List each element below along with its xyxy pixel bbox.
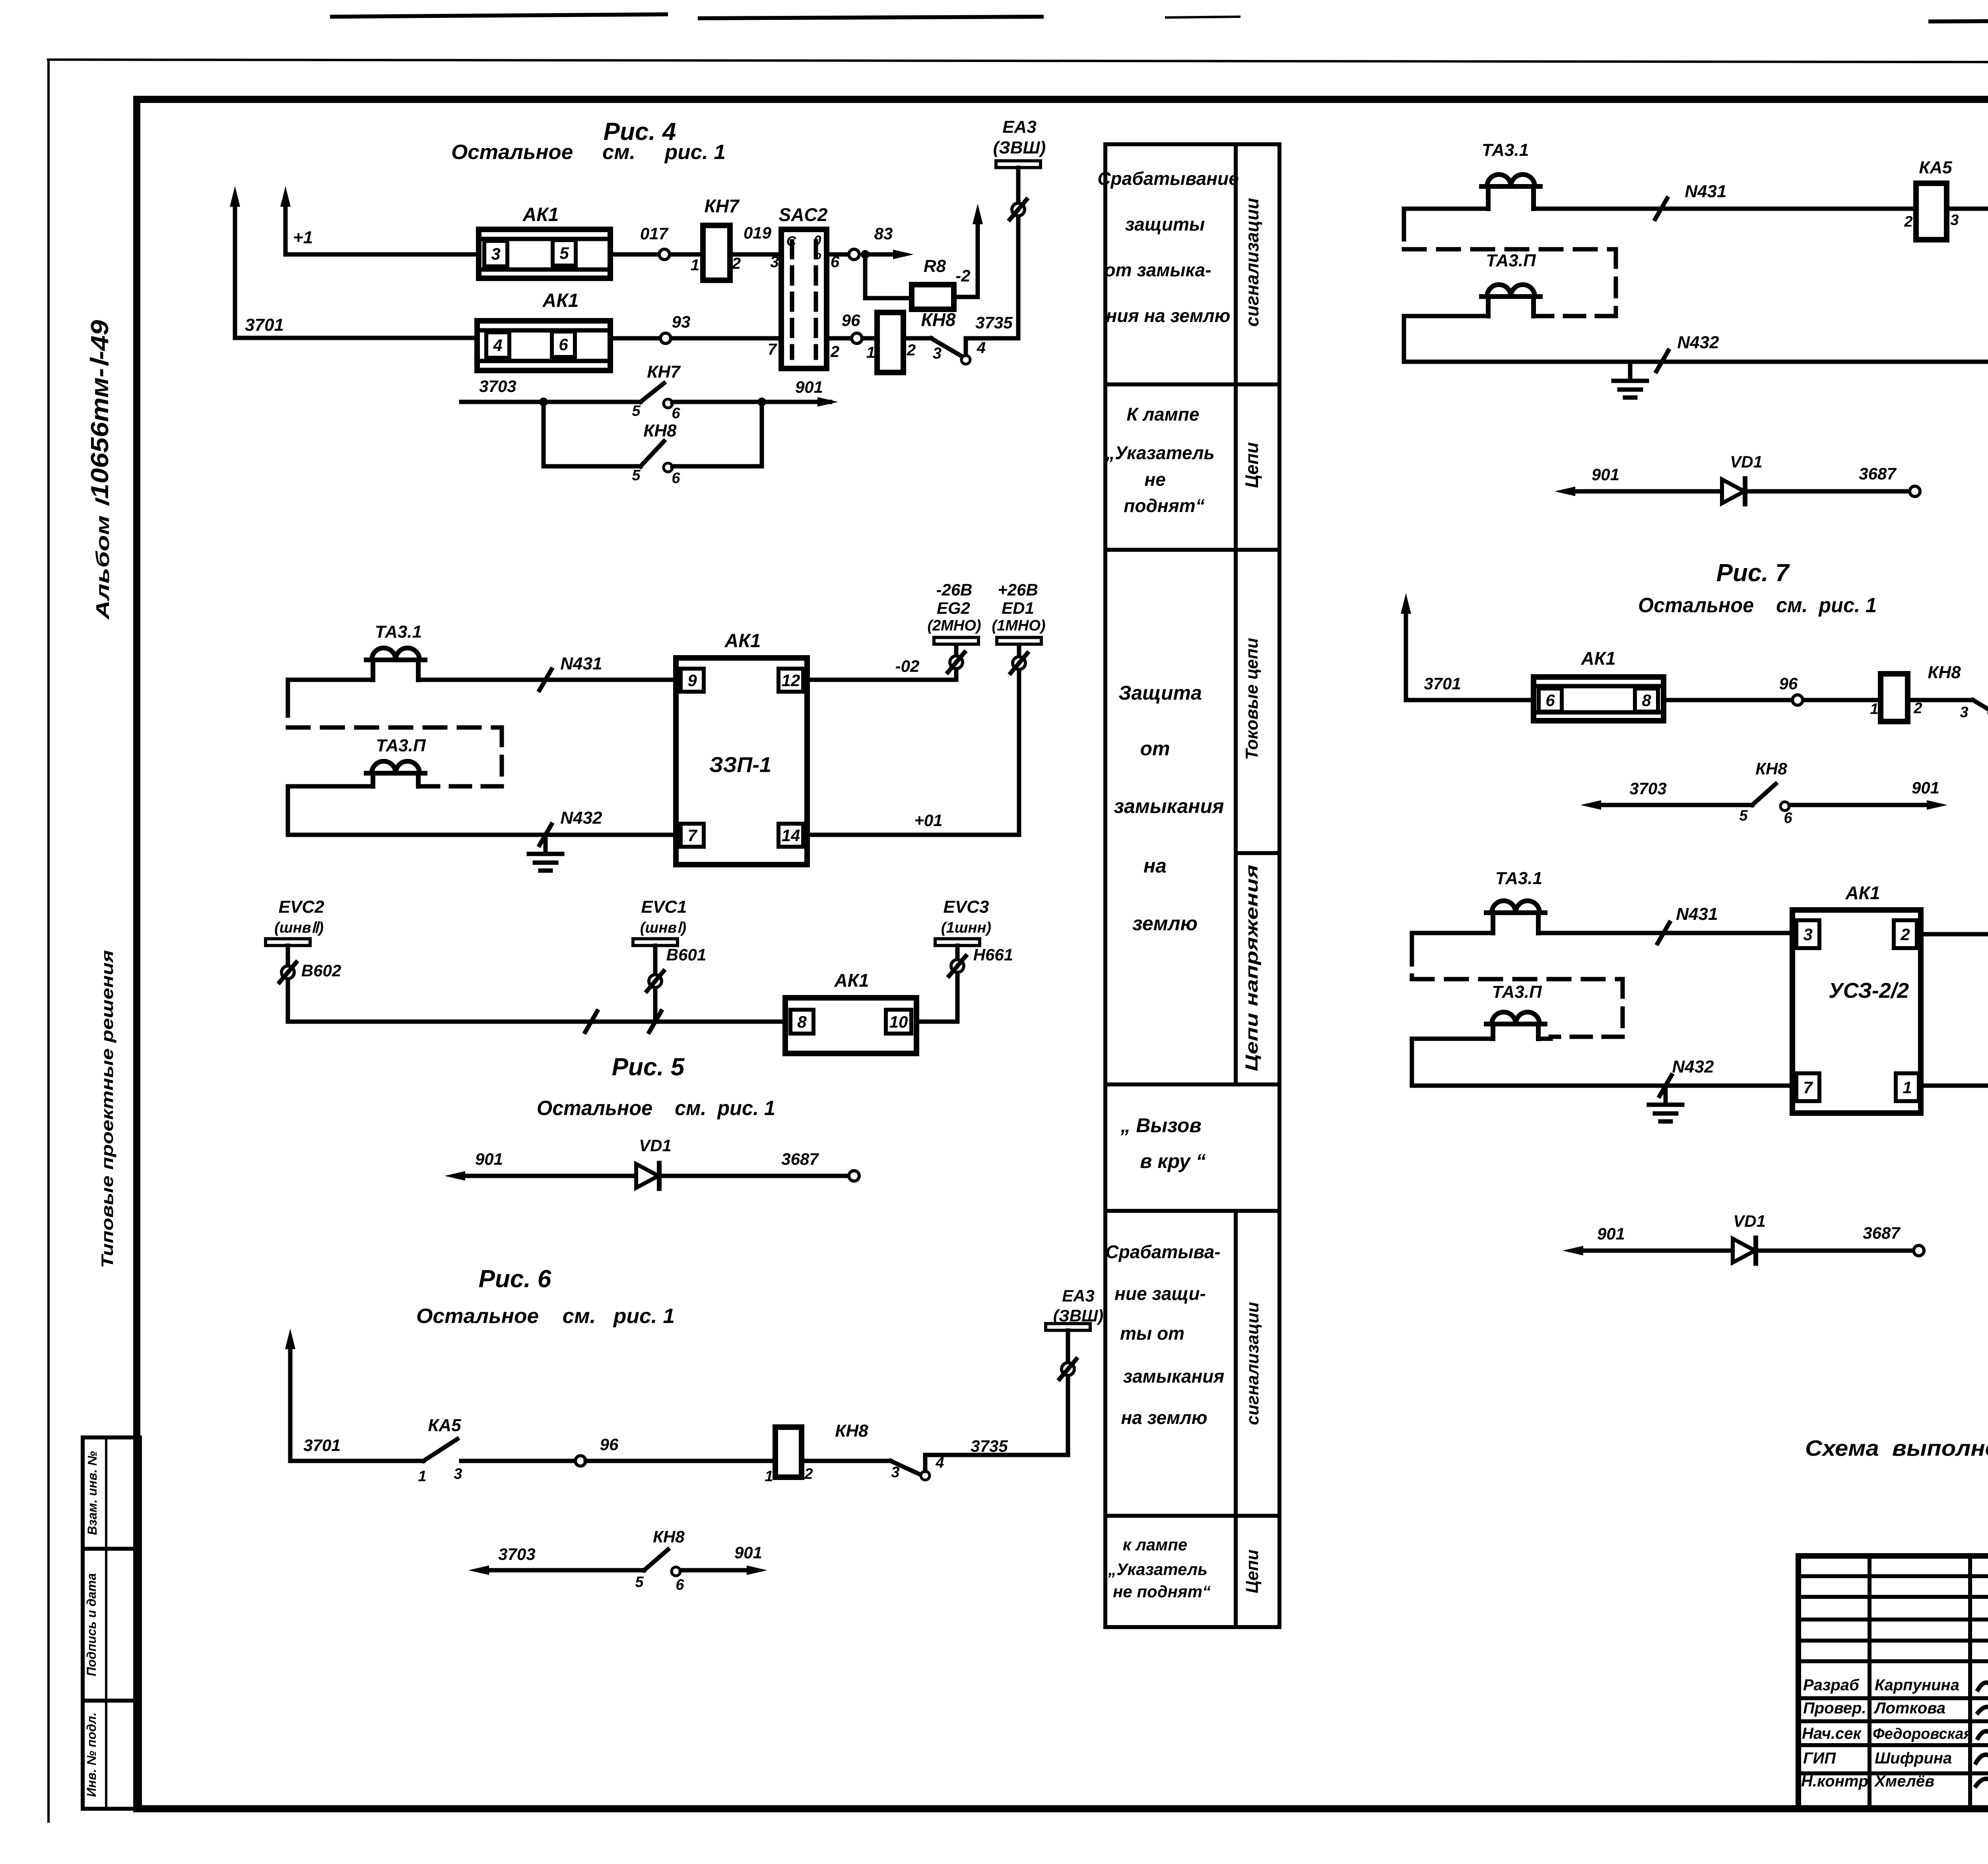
svg-text:R8: R8 (924, 256, 946, 276)
wire feeder 3701 with up arrow (fig4) (233, 202, 237, 338)
svg-text:от замыка-: от замыка- (1105, 260, 1211, 280)
disconnect circle EG2 (fig5) (950, 656, 963, 669)
svg-text:2: 2 (1900, 925, 1910, 944)
wire EA3 vertical (fig4) (1016, 168, 1021, 338)
svg-text:Остальное см. рис. 1: Остальное см. рис. 1 (451, 141, 726, 164)
svg-text:в кру “: в кру “ (1140, 1150, 1206, 1172)
ground symbol (fig7 lower) (1664, 1086, 1668, 1104)
svg-text:Срабатывание: Срабатывание (1097, 168, 1239, 189)
svg-text:6: 6 (1545, 691, 1555, 710)
disconnect circle EA3 (fig6) (1062, 1363, 1074, 1375)
svg-text:Токовые цепи: Токовые цепи (1242, 638, 1262, 760)
svg-text:6: 6 (559, 335, 568, 354)
svg-text:10: 10 (889, 1012, 908, 1031)
bus bar EVC3 (935, 939, 980, 946)
disconnect circle В601 (649, 975, 662, 987)
current transformer TA3.1 (fig7 top) (1481, 184, 1540, 189)
relay block AK1 (pins 8-10) fig5 (785, 998, 916, 1053)
wire N432 (fig5) (288, 833, 676, 837)
svg-text:N432: N432 (1677, 333, 1719, 352)
wire feeder 3701 with up arrow (fig7) (1404, 609, 1408, 700)
svg-text:не поднят“: не поднят“ (1113, 1582, 1211, 1601)
svg-text:10656тм-Ⅰ-49: 10656тм-Ⅰ-49 (86, 320, 114, 499)
svg-text:2: 2 (830, 343, 839, 361)
svg-text:2: 2 (732, 255, 741, 272)
wire below TA3.П (fig7 lower) (1412, 1037, 1493, 1041)
arrow 901 (fig4) (815, 400, 823, 404)
relay block AK1 upper (pins 3-5) fig4 (479, 229, 610, 278)
middle table cell К лампе Указатель не поднят (1105, 404, 1215, 516)
title row names (1873, 1676, 1972, 1790)
current transformer TA3.1 (fig5) (366, 658, 425, 662)
svg-text:ние защи-: ние защи- (1114, 1283, 1206, 1304)
svg-text:901: 901 (1597, 1224, 1625, 1243)
svg-text:+26В: +26В (998, 580, 1038, 599)
svg-text:7: 7 (768, 341, 777, 358)
svg-text:ния на землю: ния на землю (1106, 305, 1231, 326)
svg-text:6: 6 (672, 470, 680, 487)
svg-text:Цепи: Цепи (1242, 1550, 1262, 1593)
svg-text:С: С (786, 234, 796, 249)
svg-text:3: 3 (491, 244, 500, 263)
svg-text:от: от (1140, 737, 1170, 760)
svg-text:землю: землю (1132, 912, 1198, 935)
svg-text:Остальное см. рис. 1: Остальное см. рис. 1 (1638, 594, 1877, 617)
disconnect circle ED1 (fig5) (1013, 657, 1025, 669)
svg-text:1: 1 (765, 1468, 773, 1485)
wire +01 (fig5) (807, 833, 1019, 837)
middle table frame (1105, 144, 1279, 1627)
node 96 circle (fig4) (852, 333, 862, 343)
svg-text:АК1: АК1 (542, 290, 579, 311)
margin stamp table (83, 1437, 140, 1809)
svg-text:В601: В601 (666, 945, 706, 964)
svg-text:2: 2 (804, 1466, 813, 1482)
wire N432 (fig7 top) (1404, 360, 1988, 364)
svg-text:VD1: VD1 (1730, 452, 1763, 471)
svg-text:(2МНО): (2МНО) (927, 617, 981, 634)
wire 96 (fig4) (827, 336, 877, 341)
wire N431 (fig7 lower) (1412, 931, 1493, 935)
svg-text:4: 4 (935, 1455, 944, 1471)
svg-text:3703: 3703 (479, 377, 516, 396)
contact KH8 blade 3-4 (fig6) (802, 1459, 891, 1463)
disconnect circle on EA3 wire (fig4) (1012, 203, 1025, 216)
svg-text:В602: В602 (301, 961, 341, 980)
svg-text:3735: 3735 (975, 313, 1013, 332)
svg-text:(шнвⅡ): (шнвⅡ) (274, 919, 324, 936)
node 96 circle (fig6) (575, 1456, 586, 1466)
cable slash N431 (fig7 top) (1655, 198, 1667, 219)
wire to KH8 (fig6) (586, 1459, 775, 1463)
wire left vertical (fig7 top) (1402, 209, 1406, 223)
relay contact KH7 box (pins 1-2) fig4 (703, 225, 730, 280)
wire left vertical (fig5) (286, 680, 290, 698)
svg-text:3703: 3703 (498, 1545, 535, 1563)
svg-text:901: 901 (795, 378, 823, 396)
wire feeder +1 with up arrow (fig4) (283, 202, 288, 254)
svg-text:КН8: КН8 (835, 1421, 868, 1441)
svg-text:АК1: АК1 (834, 970, 869, 991)
contact KH8 blade 3-4 (fig4) (903, 336, 931, 341)
svg-text:Лоткова: Лоткова (1873, 1699, 1945, 1717)
svg-text:ТА3.1: ТА3.1 (1482, 140, 1529, 160)
node 017 circle (659, 249, 670, 260)
svg-text:АК1: АК1 (1845, 883, 1880, 903)
wire left vertical (fig7 lower) (1410, 933, 1414, 948)
svg-text:замыкания: замыкания (1123, 1366, 1225, 1387)
svg-text:901: 901 (734, 1543, 762, 1562)
bus bar EA3 (fig6) (1046, 1324, 1090, 1331)
svg-text:8: 8 (1642, 691, 1651, 710)
middle table cell к лампе Указатель не поднят 2 (1108, 1535, 1211, 1601)
svg-text:96: 96 (842, 311, 860, 330)
outer border left line (47, 60, 50, 1823)
svg-text:3: 3 (1803, 925, 1812, 944)
svg-text:Цепи напряжения: Цепи напряжения (1242, 865, 1262, 1071)
wire branch to R8 (fig4) (865, 254, 912, 298)
relay coil KH8 (fig6) (775, 1427, 802, 1477)
svg-text:ЕG2: ЕG2 (937, 599, 970, 617)
svg-text:3735: 3735 (971, 1437, 1008, 1455)
outer border top line (47, 60, 1988, 63)
terminal circle 3687 (fig7 lower) (1914, 1245, 1924, 1256)
svg-text:3: 3 (454, 1466, 462, 1482)
svg-text:5: 5 (635, 1574, 644, 1591)
svg-text:КН8: КН8 (921, 309, 955, 330)
svg-text:1: 1 (418, 1468, 426, 1485)
diode line 901-VD1-3687 (fig7 top) (1570, 489, 1722, 494)
svg-text:Рис. 6: Рис. 6 (479, 1265, 551, 1293)
svg-text:Инв. № подл.: Инв. № подл. (84, 1713, 99, 1797)
svg-text:EVC1: EVC1 (641, 897, 687, 917)
svg-text:3701: 3701 (245, 315, 284, 335)
wire EVC3 down (955, 946, 960, 1022)
svg-text:Карпунина: Карпунина (1875, 1676, 1959, 1694)
svg-text:3: 3 (1960, 704, 1968, 721)
svg-text:КН7: КН7 (704, 196, 740, 216)
svg-text:5: 5 (559, 244, 569, 262)
svg-text:ЕD1: ЕD1 (1002, 599, 1034, 617)
diode line 901-VD1-3687 (fig7 lower) (1578, 1249, 1732, 1253)
cable slash on N432 (fig5) (540, 824, 551, 845)
svg-text:3701: 3701 (303, 1436, 340, 1455)
wire below TA3.П (fig7 top) (1404, 314, 1488, 318)
svg-text:не: не (1144, 469, 1165, 490)
wire R8 to up arrow (fig4) (954, 295, 978, 299)
svg-text:96: 96 (600, 1435, 619, 1454)
svg-text:EVC3: EVC3 (944, 897, 989, 917)
contact KH7 blade 5-6 (fig4 bottom) (641, 383, 664, 402)
svg-text:сигнализации: сигнализации (1243, 1302, 1262, 1425)
svg-text:Остальное см. рис. 1: Остальное см. рис. 1 (416, 1305, 675, 1328)
svg-text:АК1: АК1 (522, 204, 559, 225)
svg-text:к лампе: к лампе (1123, 1535, 1188, 1554)
diode line 901-VD1-3687 (fig5) (460, 1174, 636, 1178)
svg-text:ты от: ты от (1120, 1323, 1184, 1344)
protection block AK1 УСЗ-2/2 (fig7) (1792, 910, 1921, 1113)
svg-text:93: 93 (672, 312, 691, 331)
diode VD1 (fig5) (636, 1164, 658, 1188)
svg-text:ТА3.1: ТА3.1 (375, 622, 422, 642)
svg-text:3687: 3687 (781, 1150, 819, 1168)
svg-text:7: 7 (687, 826, 697, 845)
resistor R8 (912, 285, 954, 309)
svg-text:КН8: КН8 (1928, 663, 1961, 682)
svg-text:(ЗВШ): (ЗВШ) (993, 138, 1046, 157)
svg-text:1: 1 (866, 344, 875, 361)
voltage bus wire (fig5 bottom) (288, 1020, 785, 1024)
cable slash on N431 (fig5) (540, 669, 551, 690)
svg-text:КН8: КН8 (653, 1527, 685, 1546)
svg-text:4: 4 (977, 339, 986, 357)
svg-text:019: 019 (744, 223, 772, 242)
scan streak top (330, 14, 668, 17)
svg-text:3701: 3701 (1424, 674, 1461, 693)
relay coil KH8 (fig7) (1881, 674, 1908, 722)
switch block SAC2 (fig4) (781, 229, 827, 369)
bypass wire with KH8 contact 5-6 (fig4) (544, 402, 641, 466)
svg-text:EVC2: EVC2 (279, 897, 324, 917)
wire EA3 vertical (fig6) (1066, 1331, 1070, 1455)
ground symbol (fig7 top) (1628, 362, 1633, 380)
cable slash N432 (fig7 lower) (1660, 1075, 1672, 1096)
signature Шифрина (1976, 1750, 1988, 1763)
svg-text:(шнвⅠ): (шнвⅠ) (640, 919, 686, 936)
svg-text:Защита: Защита (1118, 682, 1202, 704)
svg-text:901: 901 (475, 1150, 503, 1168)
disconnect circle Н661 (951, 960, 964, 972)
svg-text:Рис. 7: Рис. 7 (1716, 559, 1790, 587)
wire pin10 to EVC3 (916, 1020, 957, 1024)
svg-text:Н661: Н661 (973, 945, 1013, 964)
svg-text:Рис. 5: Рис. 5 (612, 1053, 685, 1081)
svg-text:„Указатель: „Указатель (1108, 1560, 1208, 1579)
svg-text:АК1: АК1 (1580, 648, 1615, 669)
svg-text:сигнализации: сигнализации (1242, 198, 1262, 327)
svg-text:ТА3.П: ТА3.П (376, 736, 426, 755)
svg-text:Схема выполнена на листах: Схема выполнена на листах 45, 46, 47, 48… (1805, 1435, 1988, 1461)
svg-text:ЗЗП-1: ЗЗП-1 (709, 753, 771, 777)
wire N432 (fig7 lower) (1412, 1084, 1792, 1088)
middle table cell Защита от замыкания на землю (1114, 682, 1224, 935)
relay coil KA5 (pins 2-3) fig7 (1916, 183, 1947, 240)
relay coil KH8 (pins 1-2) fig4 (877, 312, 903, 372)
wire EVC2 down (286, 946, 290, 1022)
wire below TA3.П (fig5) (288, 784, 373, 789)
wire -02 (fig7) (1921, 932, 1988, 937)
svg-text:96: 96 (1779, 674, 1798, 693)
wire 3703-901 row (fig4) (461, 400, 641, 404)
svg-text:о: о (814, 249, 821, 262)
svg-text:7: 7 (1803, 1078, 1813, 1097)
svg-text:0: 0 (814, 233, 821, 248)
svg-text:КА5: КА5 (1919, 158, 1952, 177)
svg-text:1: 1 (1903, 1078, 1912, 1097)
relay block AK1 (pins 6-8) fig7 (1534, 677, 1664, 721)
terminal circle 3687 (fig5) (849, 1171, 859, 1181)
wire -02 (fig5) (807, 678, 956, 682)
svg-text:1: 1 (1870, 701, 1878, 718)
svg-text:Типовые проектные решени: Типовые проектные решения (98, 950, 116, 1268)
terminal circle 3687 (fig7 top) (1910, 486, 1920, 497)
svg-text:8: 8 (797, 1012, 807, 1031)
svg-text:ТА3.П: ТА3.П (1492, 982, 1542, 1002)
svg-text:2: 2 (907, 341, 916, 359)
svg-text:6: 6 (672, 405, 680, 422)
diode VD1 (fig7 top) (1722, 479, 1744, 503)
bus bar symbol EA3 (fig4) (996, 161, 1041, 168)
svg-text:9: 9 (687, 671, 697, 690)
svg-text:поднят“: поднят“ (1124, 495, 1204, 516)
cable slashes on bus (fig5) (585, 1011, 597, 1032)
svg-text:901: 901 (1912, 778, 1939, 797)
svg-text:3: 3 (933, 345, 942, 362)
svg-text:ГИП: ГИП (1803, 1750, 1836, 1767)
middle table cell Срабатывание защиты от замыкания на землю (1097, 168, 1239, 326)
svg-text:3687: 3687 (1859, 464, 1897, 483)
svg-text:2: 2 (1913, 700, 1922, 717)
svg-text:Разраб: Разраб (1803, 1676, 1860, 1694)
middle table cell Вызов в КРУ (1120, 1114, 1206, 1172)
svg-text:N431: N431 (1685, 182, 1726, 201)
svg-text:5: 5 (1739, 807, 1748, 824)
svg-text:К лампе: К лампе (1127, 404, 1200, 425)
wire +01 (fig7) (1921, 1084, 1988, 1088)
node 93 circle (660, 333, 671, 343)
wire feeder 3701 with up arrow (fig6) (288, 1344, 293, 1461)
svg-text:Хмелёв: Хмелёв (1874, 1773, 1934, 1790)
svg-text:на: на (1143, 855, 1167, 877)
svg-text:VD1: VD1 (639, 1136, 672, 1155)
svg-text:VD1: VD1 (1733, 1212, 1766, 1230)
svg-text:„Указатель: „Указатель (1105, 442, 1215, 463)
bus bar ED1 (fig5) (997, 638, 1041, 644)
signature Хмелёв (1976, 1775, 1988, 1786)
svg-text:Подпись и дата: Подпись и дата (84, 1573, 99, 1676)
svg-text:12: 12 (782, 671, 800, 690)
svg-text:ТА3.П: ТА3.П (1486, 251, 1536, 270)
bus bar EG2 (fig5) (934, 638, 978, 644)
wire 96 (fig7) (1664, 698, 1881, 702)
signature Лоткова (1978, 1707, 1988, 1714)
svg-text:901: 901 (1592, 465, 1619, 484)
svg-text:N431: N431 (1676, 904, 1718, 924)
svg-text:Провер.: Провер. (1803, 1699, 1866, 1717)
svg-text:защиты: защиты (1125, 214, 1205, 235)
svg-text:Нач.сек: Нач.сек (1802, 1725, 1862, 1742)
svg-text:УСЗ-2/2: УСЗ-2/2 (1829, 979, 1909, 1003)
svg-text:SAC2: SAC2 (779, 204, 828, 225)
svg-text:Цепи: Цепи (1241, 442, 1262, 488)
svg-text:КН8: КН8 (643, 421, 677, 440)
current transformer TA3.1 (fig7 lower) (1486, 910, 1545, 915)
svg-text:Срабатыва-: Срабатыва- (1105, 1241, 1220, 1262)
title row labels (1801, 1676, 1868, 1790)
svg-text:Шифрина: Шифрина (1875, 1750, 1952, 1767)
ground symbol (fig5) (544, 835, 548, 853)
wire EVC1 down (653, 946, 658, 1022)
diode VD1 (fig7 lower) (1733, 1239, 1755, 1263)
node 83 circle (849, 249, 859, 260)
svg-text:14: 14 (782, 826, 800, 845)
svg-text:Альбом Ⅰ: Альбом Ⅰ (92, 497, 113, 620)
node 96 circle (fig7) (1792, 695, 1803, 705)
current transformer TA3.П (fig7 lower) (1486, 1022, 1545, 1026)
wire N431 (fig7 top) (1404, 207, 1488, 211)
svg-text:5: 5 (632, 403, 641, 419)
junction dot left (fig4 bottom) (539, 398, 548, 406)
svg-text:N431: N431 (560, 654, 602, 673)
svg-text:КА5: КА5 (428, 1416, 461, 1435)
svg-text:замыкания: замыкания (1114, 795, 1224, 817)
current transformer TA3.П (fig7 top) (1481, 294, 1540, 299)
svg-text:3687: 3687 (1863, 1224, 1901, 1242)
protection block AK1 ЗЗП-1 (fig5) (676, 658, 807, 865)
svg-text:4: 4 (493, 336, 502, 355)
wire 93 (fig4) (610, 336, 781, 341)
svg-text:017: 017 (640, 224, 669, 243)
svg-text:ЕА3: ЕА3 (1062, 1286, 1095, 1305)
middle table cell Срабатывание защиты от замыкания на землю 2 (1105, 1241, 1224, 1428)
svg-text:6: 6 (1784, 810, 1792, 826)
svg-text:5: 5 (632, 467, 641, 484)
svg-text:2: 2 (1904, 213, 1912, 230)
contact KH8 blade 3-4 (fig7) (1908, 698, 1973, 702)
signature Карпунина (1978, 1679, 1988, 1689)
wire 3703-901 with KH8 contact (fig6) (483, 1568, 644, 1573)
svg-text:3: 3 (1950, 212, 1959, 229)
wire N431 (fig5) (288, 678, 373, 682)
svg-text:на землю: на землю (1121, 1407, 1207, 1428)
svg-text:3: 3 (770, 253, 779, 271)
cable slash N432 (fig7 top) (1656, 351, 1668, 371)
dashed link TA3.П (fig5) (288, 725, 502, 730)
svg-text:Федоровская: Федоровская (1873, 1726, 1972, 1742)
title block frame (1798, 1556, 1988, 1809)
svg-text:-26В: -26В (936, 580, 972, 599)
svg-text:N432: N432 (1672, 1057, 1714, 1077)
svg-text:КН8: КН8 (1755, 759, 1787, 778)
svg-text:ТА3.1: ТА3.1 (1495, 869, 1542, 888)
disconnect circle В602 (282, 966, 294, 979)
svg-text:Взам. инв. №: Взам. инв. № (85, 1451, 99, 1535)
wire 019 (fig4) (730, 252, 781, 257)
junction dot 83 (861, 250, 870, 259)
svg-text:АК1: АК1 (724, 630, 761, 652)
svg-text:6: 6 (676, 1577, 684, 1593)
dashed link TA3.П (fig7 lower) (1412, 977, 1623, 981)
relay block AK1 lower (pins 4-6) fig4 (477, 321, 610, 370)
svg-text:3: 3 (891, 1464, 899, 1481)
wire 3703-901 with KH8 contact 5-6 (fig7) (1596, 803, 1752, 807)
svg-text:КН7: КН7 (647, 362, 681, 382)
svg-text:83: 83 (874, 224, 893, 243)
svg-text:1: 1 (691, 256, 699, 274)
svg-text:Остальное см. рис. 1: Остальное см. рис. 1 (537, 1097, 775, 1120)
svg-text:-2: -2 (955, 266, 970, 285)
svg-text:+01: +01 (914, 811, 942, 830)
bus bar EVC1 (633, 939, 678, 946)
current transformer TA3.П (fig5) (366, 771, 425, 776)
dashed link TA3.П (fig7 top) (1404, 247, 1616, 252)
svg-text:(1МНО): (1МНО) (992, 617, 1045, 634)
svg-text:Н.контр: Н.контр (1801, 1773, 1868, 1790)
bus bar EVC2 (266, 939, 310, 946)
svg-text:+1: +1 (293, 228, 313, 247)
wire 83 with arrow (fig4) (827, 252, 849, 257)
junction dot right (fig4 bottom) (757, 398, 766, 406)
